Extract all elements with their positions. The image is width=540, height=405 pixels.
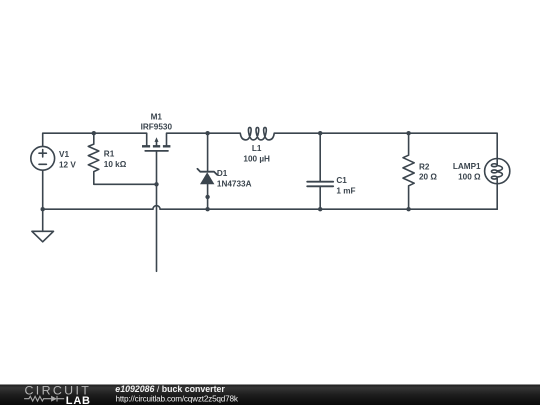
svg-text:100 µH: 100 µH (243, 155, 270, 164)
svg-text:M1: M1 (151, 112, 163, 121)
svg-text:1 mF: 1 mF (336, 186, 355, 195)
junction dot C1 bottom (318, 207, 322, 211)
mosfet M1 middle bar (153, 145, 160, 147)
wire top: M1 right to L1 (167, 133, 241, 145)
capacitor C1 top lead (319, 133, 321, 182)
svg-text:12 V: 12 V (59, 161, 76, 170)
lamp LAMP1 filament top lead (496, 159, 498, 166)
junction dot R2 top (406, 131, 410, 135)
hop over gate wire (153, 206, 160, 210)
junction dot D1 top (205, 131, 209, 135)
zener diode D1 cathode bar with hooks (197, 169, 217, 175)
svg-text:LAB: LAB (66, 395, 91, 405)
junction dot R1 top (92, 131, 96, 135)
svg-text:IRF9530: IRF9530 (141, 122, 173, 131)
logo mini circuit wire with resistor and diode (24, 396, 64, 402)
voltage source V1 circle (31, 146, 55, 170)
svg-text:http://circuitlab.com/cqwzt2z5: http://circuitlab.com/cqwzt2z5qd78k (116, 394, 239, 403)
resistor R1 (88, 133, 156, 184)
mosfet M1 body arrow shaft (156, 140, 158, 145)
junction dot R2 bottom (406, 207, 410, 211)
zener diode D1 anode lead (207, 184, 209, 209)
capacitor C1 top plate (307, 181, 333, 183)
lamp LAMP1 filament loop 2 (491, 170, 497, 173)
lamp LAMP1 filament loop 3 (491, 176, 497, 179)
svg-text:1N4733A: 1N4733A (217, 180, 252, 189)
junction dot D1 bottom (205, 207, 209, 211)
svg-text:D1: D1 (217, 169, 228, 178)
lamp LAMP1 filament loop 1 (491, 164, 497, 167)
junction dot D1 anode (205, 195, 209, 199)
V1 minus sign (39, 163, 46, 165)
mosfet M1 gate plate (145, 150, 168, 152)
junction dot gate R1 (154, 182, 158, 186)
ground (32, 231, 54, 242)
zener diode D1 cathode lead (207, 133, 209, 172)
svg-text:R1: R1 (104, 150, 115, 159)
svg-text:R2: R2 (419, 162, 430, 171)
inductor L1 coil (240, 127, 274, 139)
svg-text:100 Ω: 100 Ω (458, 173, 481, 182)
mosfet M1 left bar (142, 145, 150, 147)
footer bar (0, 385, 540, 405)
wire bottom: left of hop (43, 170, 153, 209)
mosfet M1 gate lead down (156, 151, 158, 271)
mosfet M1 right bar (163, 145, 171, 147)
svg-text:LAMP1: LAMP1 (453, 162, 481, 171)
logo mini diode triangle (51, 396, 57, 402)
svg-text:V1: V1 (59, 150, 69, 159)
wire top: V1 to M1 left (43, 133, 147, 146)
mosfet M1 body arrow head (155, 137, 159, 142)
lamp LAMP1 circle (485, 159, 510, 184)
capacitor C1 bottom plate (307, 185, 333, 187)
zener diode D1 triangle (200, 172, 214, 184)
V1 plus sign (39, 150, 46, 157)
lamp LAMP1 filament bottom lead (496, 178, 498, 184)
capacitor C1 bottom lead (319, 186, 321, 209)
svg-text:10 kΩ: 10 kΩ (104, 160, 127, 169)
svg-text:L1: L1 (252, 144, 262, 153)
wire right edge: lamp bottom to bottom wire (496, 184, 498, 210)
svg-text:20 Ω: 20 Ω (419, 173, 437, 182)
wire top: L1 to right edge down to lamp (274, 133, 497, 158)
wire: ground stub (42, 209, 44, 231)
lamp LAMP1 filament arc 1 (497, 166, 502, 171)
junction dot ground (41, 207, 45, 211)
svg-text:e1092086 / buck converter: e1092086 / buck converter (115, 384, 225, 394)
junction dot C1 top (318, 131, 322, 135)
lamp LAMP1 filament arc 2 (497, 172, 502, 177)
wire bottom: right of hop (160, 208, 497, 210)
resistor R2 (403, 133, 414, 209)
svg-text:C1: C1 (336, 176, 347, 185)
